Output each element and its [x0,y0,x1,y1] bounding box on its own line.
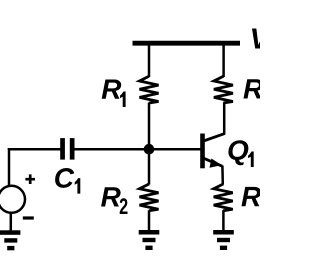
resistor R2 [140,184,159,211]
label - polarity [23,216,34,219]
ground under RE [213,230,234,250]
transistor Q1 collector diagonal [204,134,225,141]
wire: rail to R1 top [148,43,151,77]
transistor Q1 emitter arrowhead [210,159,222,168]
label C1 [55,168,74,188]
source vsig circle [0,186,25,213]
wire: emitter to RE top [221,166,224,185]
label RC (subscript clipped at edge) [244,79,264,98]
wire: RE bottom to ground [222,210,225,231]
label RE (subscript clipped at edge) [242,187,262,206]
label R1 [102,80,122,99]
transistor Q1 emitter diagonal [204,158,223,166]
wire: R1 bottom to base node [148,103,151,151]
wire: source corner to C1 left plate [9,148,61,151]
ground under source [0,230,20,250]
resistor RE [214,184,233,211]
wire: C1 right plate to transistor base [75,148,201,151]
resistor R1 [140,76,159,103]
capacitor C1 left plate [60,138,65,160]
wire: RC bottom to collector corner [223,103,226,135]
supply rail VCC bus [133,41,241,46]
resistor RC [214,76,233,103]
wire: source bottom to ground [10,212,13,231]
wire: node down to R2 top [148,149,151,185]
label + polarity [25,174,35,184]
label V (VCC), clipped at right edge [252,29,271,49]
wire: corner down to source top [8,148,11,186]
wire: R2 bottom to ground [148,210,151,231]
ground under R2 [139,230,160,250]
label Q1 [228,140,248,165]
capacitor C1 right plate [70,138,75,160]
label R2 [101,187,121,206]
transistor Q1 base bar [200,134,205,169]
wire: rail to RC top [222,43,225,77]
node: base junction dot [144,144,155,155]
